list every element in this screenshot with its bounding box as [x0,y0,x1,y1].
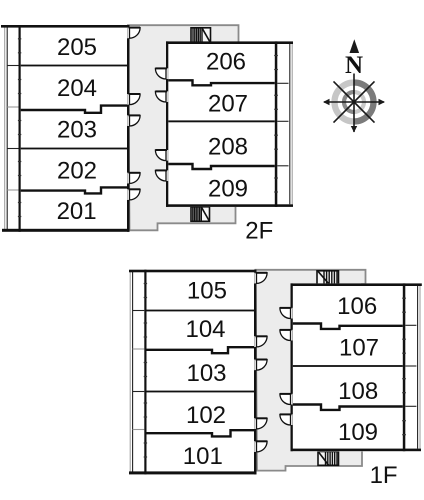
svg-text:202: 202 [57,157,97,184]
wall 103/102 [147,391,255,393]
wall 102/101 [147,430,255,436]
wall 205/204 [21,65,127,67]
door west block 1F [254,336,257,347]
svg-text:2F: 2F [245,217,273,244]
balcony divider [277,165,288,167]
svg-text:N: N [345,52,363,79]
windows east block 1F [402,298,406,299]
svg-text:109: 109 [338,419,378,446]
door 201 [127,189,130,200]
walls 2F east block [166,41,293,44]
balcony divider [405,365,416,367]
balcony divider [133,429,145,431]
balcony 2F west [4,26,6,231]
compass rose [323,39,385,132]
stairs 1F top [317,271,339,285]
door west block 1F [254,360,257,371]
balcony 1F east [417,286,419,449]
wall 202/201 [21,187,127,193]
walls 2F west block [1,25,130,28]
door west block 1F [254,418,257,429]
door west block 1F [254,441,257,452]
door east block 1F [291,330,293,341]
door 202 [127,173,130,184]
door 203 [127,115,130,126]
svg-text:104: 104 [185,316,225,343]
balcony 1F west [129,270,131,473]
wall 104/103 [147,347,255,353]
stairs 2F top [191,28,211,43]
compass N arrow [350,39,360,53]
balcony divider [133,310,145,312]
svg-text:206: 206 [206,49,246,76]
wall 106/107 [293,324,403,329]
svg-text:209: 209 [208,176,248,203]
stairs 2F bottom [191,207,210,222]
corridor 2F [128,25,239,230]
door west block 1F [254,273,257,284]
door east block [166,170,168,181]
balcony 2F east [289,44,291,204]
wall 108/109 [293,405,403,410]
door east block 1F [291,394,293,405]
balcony divider [7,106,18,108]
svg-text:1F: 1F [370,462,398,489]
door 205 [127,28,130,39]
balcony divider [277,120,288,122]
svg-text:101: 101 [183,443,223,470]
balcony divider [7,189,18,191]
corridor 1F [256,270,366,471]
wall 105/104 [147,310,255,312]
balcony divider [405,324,416,326]
windows east block 2F [274,55,278,56]
balcony divider [7,65,18,67]
building block 1F west [144,270,256,475]
wall 207/208 [168,120,274,122]
wall 208/209 [168,164,274,169]
svg-text:205: 205 [57,34,97,61]
wall 206/207 [168,80,274,85]
svg-text:207: 207 [208,91,248,118]
svg-text:105: 105 [187,277,227,304]
balcony divider [133,348,145,350]
wall 107/108 [293,365,403,367]
balcony divider [277,82,288,84]
door east block [166,91,168,102]
door east block 1F [291,308,293,319]
svg-text:204: 204 [57,75,97,102]
wall 203/202 [21,148,127,150]
building block 2F east [166,42,277,207]
svg-text:102: 102 [186,402,226,429]
windows west block 2F [18,38,21,39]
svg-text:208: 208 [208,133,248,160]
svg-text:103: 103 [186,360,226,387]
svg-text:201: 201 [57,198,97,225]
wall 204/203 [21,106,127,113]
walls 1F east block [291,283,422,286]
door 204 [127,94,130,105]
building block 2F west [19,25,130,232]
svg-text:106: 106 [337,293,377,320]
balcony divider [7,148,18,150]
walls 1F west block [129,270,257,273]
svg-text:108: 108 [338,378,378,405]
windows west block 1F [144,283,147,284]
door east block [166,68,168,79]
balcony divider [405,405,416,407]
svg-text:107: 107 [339,335,379,362]
svg-text:203: 203 [57,117,97,144]
building block 1F east [291,283,406,451]
door east block 1F [291,414,293,425]
balcony divider [133,391,145,393]
stairs 1F bottom [318,452,339,466]
door east block [166,150,168,161]
